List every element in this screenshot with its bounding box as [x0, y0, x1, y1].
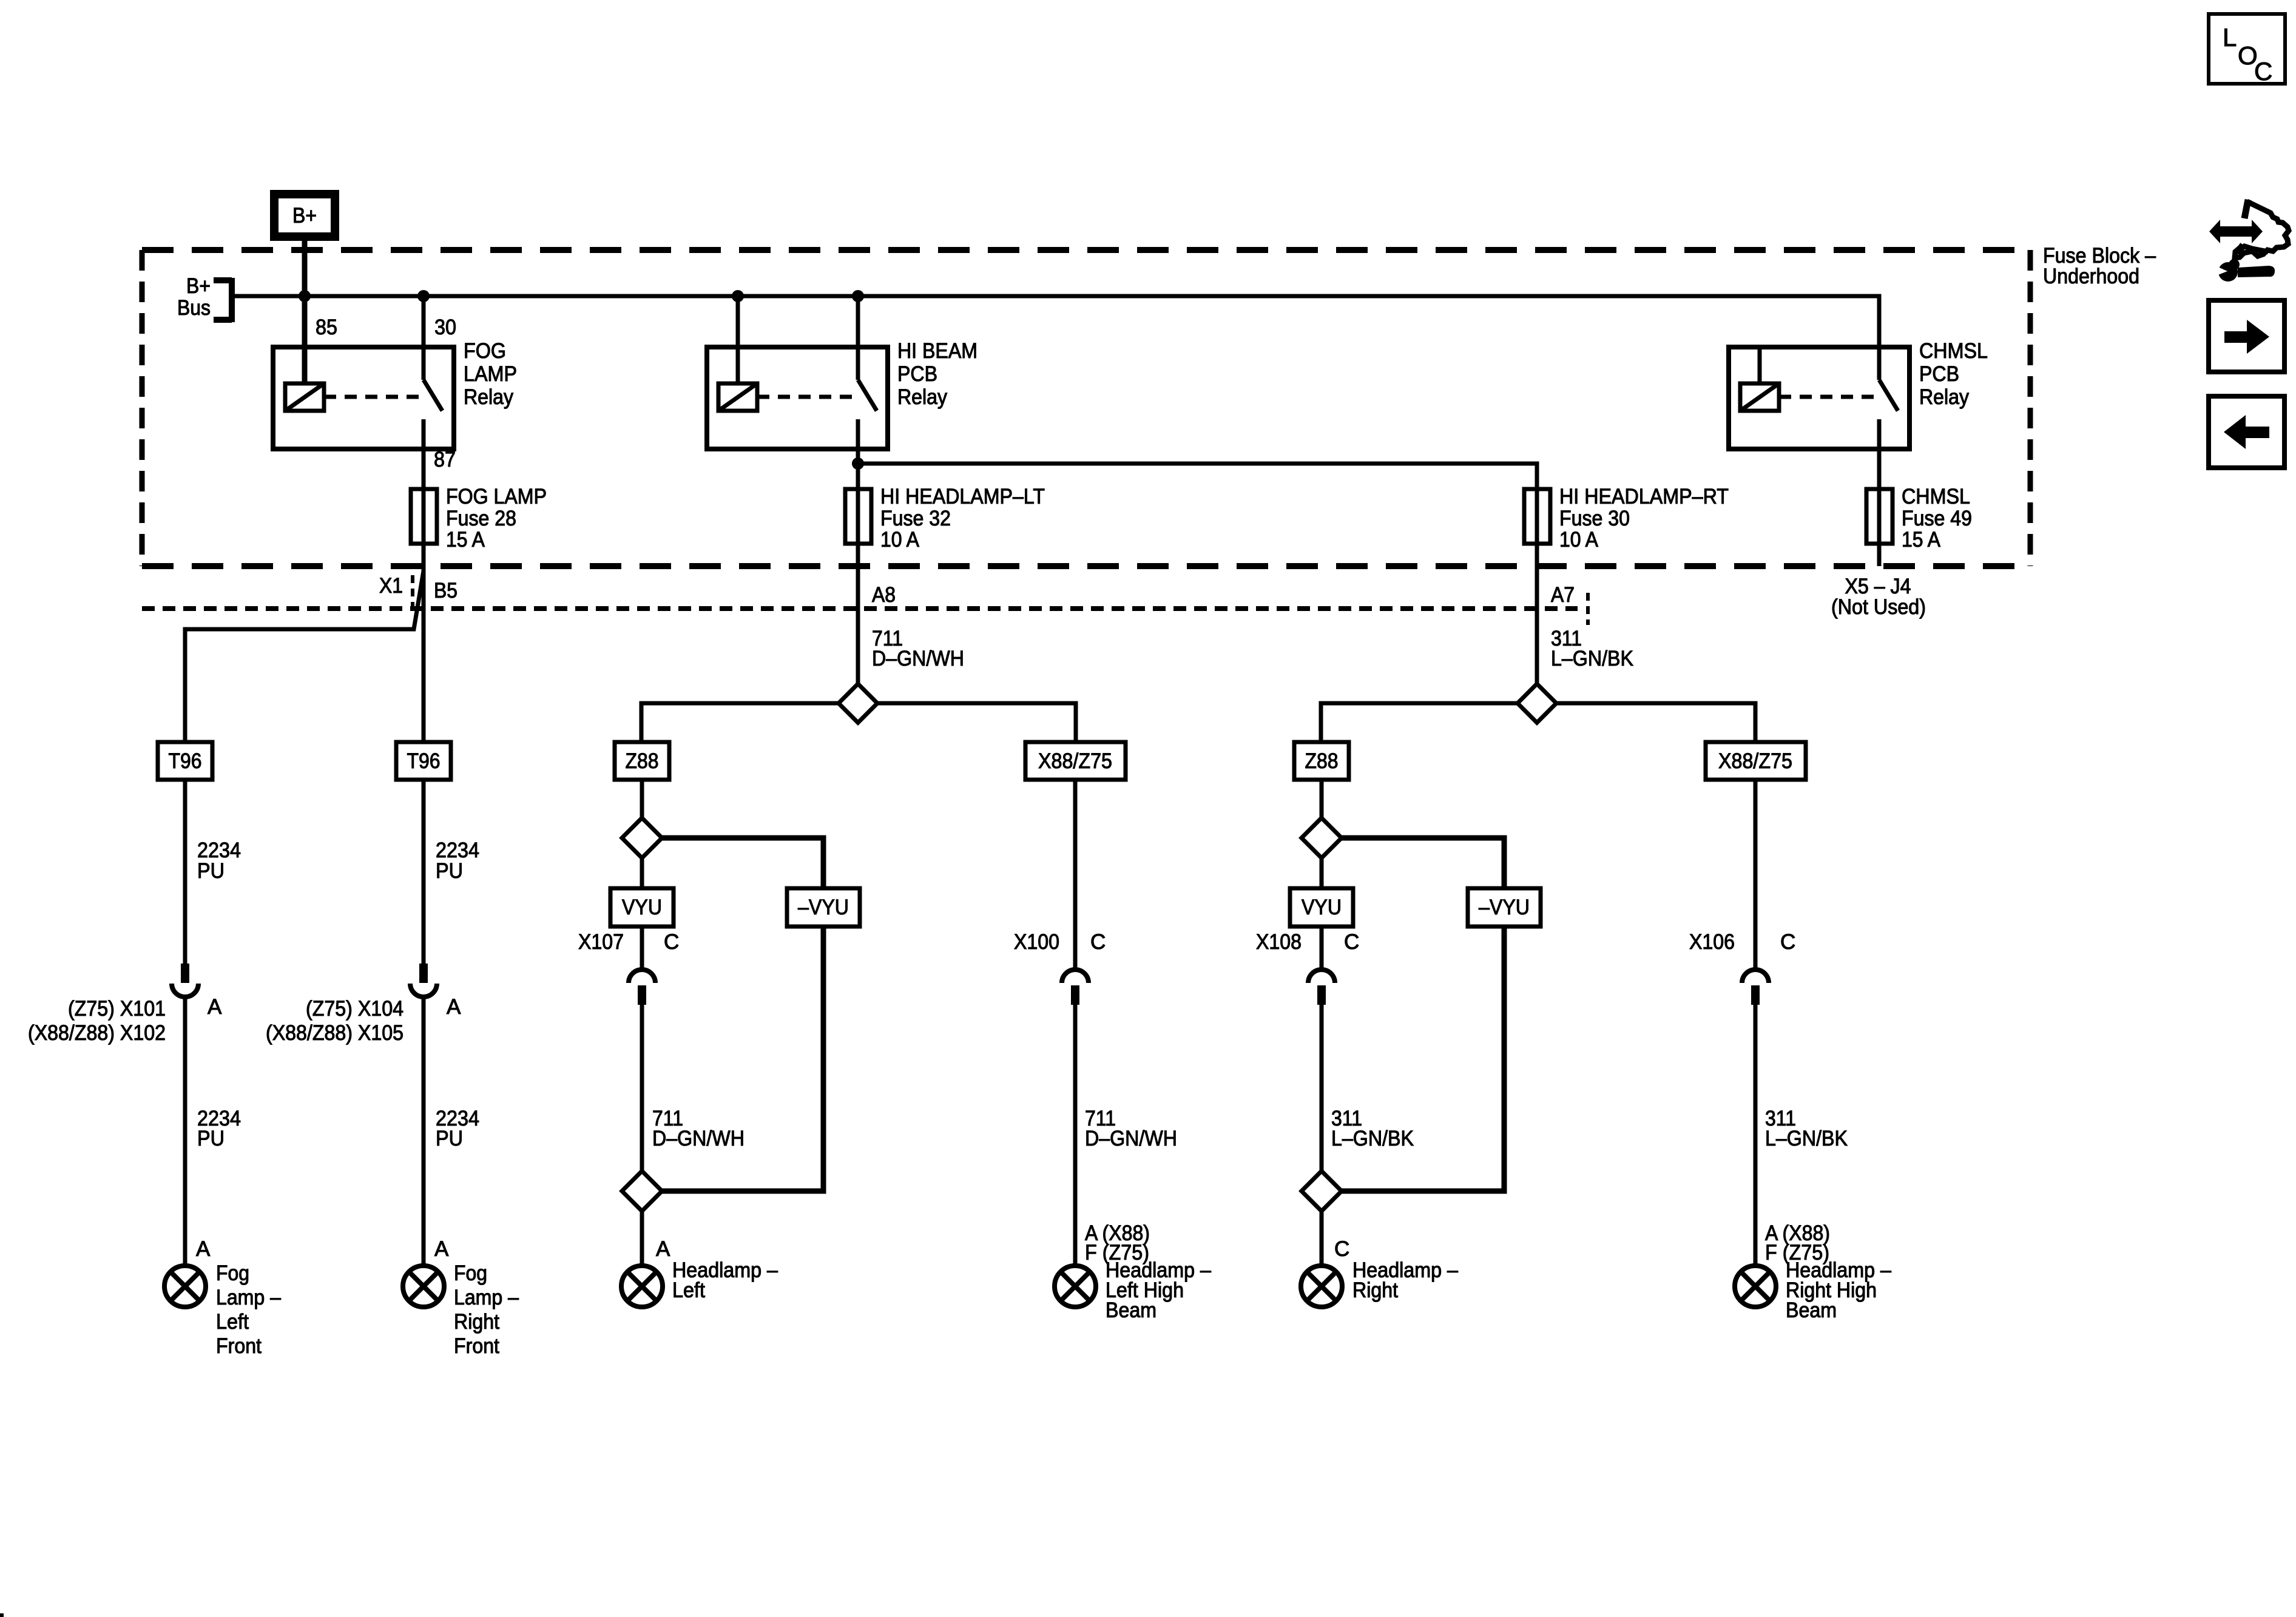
svg-text:B+: B+ — [292, 204, 317, 228]
svg-text:Right: Right — [454, 1310, 499, 1334]
svg-text:PU: PU — [197, 859, 225, 883]
svg-text:Z88: Z88 — [626, 749, 659, 773]
svg-text:PU: PU — [436, 1127, 463, 1150]
svg-text:VYU: VYU — [622, 896, 662, 919]
svg-text:–VYU: –VYU — [1479, 896, 1530, 919]
svg-text:C: C — [2254, 57, 2272, 86]
svg-text:CHMSL: CHMSL — [1919, 339, 1988, 363]
svg-text:FOG: FOG — [464, 339, 506, 363]
svg-text:PCB: PCB — [897, 362, 937, 386]
svg-text:Relay: Relay — [464, 385, 513, 409]
svg-text:(Z75) X101: (Z75) X101 — [68, 997, 166, 1021]
svg-text:(Z75) X104: (Z75) X104 — [306, 997, 403, 1021]
svg-text:15 A: 15 A — [446, 528, 485, 552]
svg-text:10 A: 10 A — [880, 528, 920, 552]
svg-text:Underhood: Underhood — [2043, 265, 2139, 288]
svg-text:Relay: Relay — [897, 385, 947, 409]
svg-text:X100: X100 — [1014, 930, 1059, 954]
svg-text:A: A — [447, 995, 461, 1019]
svg-text:LAMP: LAMP — [464, 362, 517, 386]
svg-text:Beam: Beam — [1106, 1298, 1156, 1322]
svg-text:C: C — [1780, 930, 1795, 954]
svg-text:A: A — [434, 1237, 449, 1261]
svg-text:(X88/Z88) X105: (X88/Z88) X105 — [266, 1021, 403, 1045]
svg-text:D–GN/WH: D–GN/WH — [1085, 1127, 1177, 1150]
svg-text:87: 87 — [434, 448, 456, 471]
svg-text:30: 30 — [434, 316, 456, 339]
svg-text:PU: PU — [197, 1127, 225, 1150]
svg-text:T96: T96 — [407, 749, 441, 773]
svg-text:Fuse 28: Fuse 28 — [446, 507, 516, 530]
svg-text:C: C — [1344, 930, 1359, 954]
svg-text:Fog: Fog — [216, 1261, 249, 1285]
svg-text:–VYU: –VYU — [798, 896, 849, 919]
svg-text:Fog: Fog — [454, 1261, 487, 1285]
svg-text:85: 85 — [316, 316, 337, 339]
svg-text:A: A — [196, 1237, 211, 1261]
svg-text:PU: PU — [436, 859, 463, 883]
svg-text:C: C — [1090, 930, 1106, 954]
svg-text:HI HEADLAMP–LT: HI HEADLAMP–LT — [880, 485, 1045, 508]
svg-text:L–GN/BK: L–GN/BK — [1765, 1127, 1848, 1150]
svg-text:(X88/Z88) X102: (X88/Z88) X102 — [28, 1021, 166, 1045]
svg-text:B5: B5 — [434, 579, 458, 603]
svg-text:X106: X106 — [1689, 930, 1735, 954]
svg-text:X88/Z75: X88/Z75 — [1718, 749, 1792, 773]
svg-text:CHMSL: CHMSL — [1902, 485, 1970, 508]
svg-text:T96: T96 — [169, 749, 202, 773]
svg-text:Fuse 49: Fuse 49 — [1902, 507, 1972, 530]
svg-text:A: A — [208, 995, 222, 1019]
svg-text:Bus: Bus — [177, 296, 211, 320]
svg-text:Fuse 32: Fuse 32 — [880, 507, 951, 530]
svg-text:D–GN/WH: D–GN/WH — [652, 1127, 745, 1150]
svg-text:L–GN/BK: L–GN/BK — [1551, 647, 1633, 670]
svg-text:(Not Used): (Not Used) — [1831, 595, 1926, 619]
svg-text:10 A: 10 A — [1559, 528, 1599, 552]
svg-text:PCB: PCB — [1919, 362, 1959, 386]
svg-text:FOG LAMP: FOG LAMP — [446, 485, 547, 508]
svg-text:Z88: Z88 — [1305, 749, 1339, 773]
svg-text:Lamp –: Lamp – — [454, 1286, 519, 1309]
svg-text:A8: A8 — [872, 583, 896, 607]
svg-text:B+: B+ — [186, 274, 211, 298]
svg-text:C: C — [1334, 1237, 1349, 1261]
svg-text:Front: Front — [216, 1334, 262, 1358]
svg-text:Relay: Relay — [1919, 385, 1969, 409]
svg-text:L: L — [2223, 23, 2237, 52]
svg-text:D–GN/WH: D–GN/WH — [872, 647, 964, 670]
svg-text:HI BEAM: HI BEAM — [897, 339, 977, 363]
svg-text:Front: Front — [454, 1334, 499, 1358]
svg-text:Left: Left — [672, 1278, 705, 1302]
svg-text:L–GN/BK: L–GN/BK — [1331, 1127, 1414, 1150]
svg-text:HI HEADLAMP–RT: HI HEADLAMP–RT — [1559, 485, 1729, 508]
svg-text:Right: Right — [1352, 1278, 1398, 1302]
svg-text:Fuse 30: Fuse 30 — [1559, 507, 1630, 530]
svg-text:C: C — [664, 930, 679, 954]
svg-text:Left: Left — [216, 1310, 249, 1334]
svg-text:A7: A7 — [1551, 583, 1575, 607]
svg-text:Beam: Beam — [1786, 1298, 1837, 1322]
svg-text:X1: X1 — [379, 574, 403, 598]
svg-text:A: A — [656, 1237, 670, 1261]
svg-text:15 A: 15 A — [1902, 528, 1941, 552]
svg-text:Lamp –: Lamp – — [216, 1286, 281, 1309]
svg-text:X88/Z75: X88/Z75 — [1038, 749, 1112, 773]
svg-text:X107: X107 — [578, 930, 624, 954]
svg-text:VYU: VYU — [1302, 896, 1342, 919]
svg-text:X108: X108 — [1256, 930, 1302, 954]
